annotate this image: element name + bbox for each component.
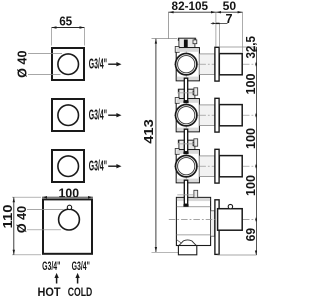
outlet dome (side view)	[179, 240, 196, 245]
svg-text:Ø 40: Ø 40	[15, 206, 29, 233]
svg-text:32,5: 32,5	[244, 36, 257, 59]
valve unit 3 (side view)	[174, 140, 257, 183]
port centerline valve1-valve2	[177, 92, 194, 94]
svg-text:100: 100	[244, 175, 257, 196]
svg-text:7: 7	[225, 12, 232, 26]
connecting pipe valve2-valve3	[183, 129, 188, 154]
arrow up cold inlet	[75, 273, 79, 284]
svg-text:G3/4": G3/4"	[89, 106, 107, 123]
svg-text:Ø 40: Ø 40	[16, 51, 30, 78]
right chain dimension witness lines	[217, 47, 256, 255]
connecting pipe valve3-thermostat	[183, 180, 188, 206]
thermostat knob circle (front)	[59, 209, 80, 230]
svg-text:G3/4": G3/4"	[72, 259, 90, 273]
svg-text:110: 110	[1, 205, 15, 229]
svg-text:G3/4": G3/4"	[89, 55, 107, 72]
thermostat cartridge neck (side view)	[211, 211, 215, 236]
svg-text:HOT: HOT	[38, 285, 61, 299]
svg-text:COLD: COLD	[68, 285, 93, 299]
handle circle 2 (front)	[58, 105, 79, 126]
dim 7 line with outside arrows	[211, 22, 228, 24]
dim 413 line with arrows	[155, 39, 157, 252]
dim Ø40 leader lines (front top)	[28, 53, 62, 74]
dim 65 line with arrows	[52, 26, 85, 28]
dim 413 witness lines	[152, 39, 179, 253]
valve trim square 2 (front)	[52, 99, 84, 131]
right chain dimension line	[255, 47, 257, 255]
valve trim square 3 (front)	[52, 150, 84, 182]
valve trim square 1 (front)	[52, 48, 84, 80]
wall plane line	[168, 12, 170, 39]
svg-text:413: 413	[142, 119, 156, 144]
dim 110 line with arrows	[13, 197, 15, 255]
dim 65 witness lines	[52, 28, 85, 46]
dim 100 line with arrows (front)	[42, 196, 93, 198]
valve unit 1 (side view)	[174, 38, 257, 81]
svg-text:69: 69	[244, 228, 257, 242]
thermostat knob button (side view)	[228, 204, 232, 208]
handle circle 1 (front)	[58, 54, 79, 75]
union nut valve2-valve3	[194, 139, 198, 146]
svg-text:100: 100	[59, 186, 80, 200]
svg-text:65: 65	[59, 15, 72, 29]
svg-text:100: 100	[244, 128, 257, 149]
valve unit 2 (side view)	[174, 89, 257, 132]
union nut valve3-thermostat	[194, 190, 198, 197]
dim Ø40 leader lines (thermostat)	[27, 209, 64, 229]
union nut valve1-valve2	[194, 88, 198, 95]
thermostat knob (side view)	[218, 209, 243, 231]
thermostat centerline	[169, 219, 257, 221]
arrow right outlet 1	[108, 62, 121, 66]
handle circle 3 (front)	[58, 156, 79, 177]
thermostat trim square (front)	[43, 199, 92, 253]
dim 7 witness lines	[216, 12, 243, 52]
dim 110 witness lines	[12, 197, 41, 255]
connecting pipe valve1-valve2	[183, 78, 188, 103]
svg-text:G3/4": G3/4"	[89, 157, 107, 174]
thermostat body (side view)	[176, 197, 210, 245]
svg-text:100: 100	[244, 74, 257, 95]
arrow right outlet 2	[108, 113, 121, 117]
port centerline valve2-valve3	[177, 143, 194, 145]
svg-text:G3/4": G3/4"	[42, 259, 60, 273]
thermostat trim plate (side view)	[215, 200, 219, 255]
dim 82-105 / 50 top dimension line	[169, 11, 243, 13]
outlet fitting (side view)	[178, 246, 196, 255]
svg-text:82-105: 82-105	[172, 0, 209, 13]
arrow up hot inlet	[54, 273, 58, 284]
thermostat knob button (front)	[67, 205, 71, 209]
port centerline valve3-thermostat	[177, 194, 194, 196]
arrow right outlet 3	[108, 164, 121, 168]
